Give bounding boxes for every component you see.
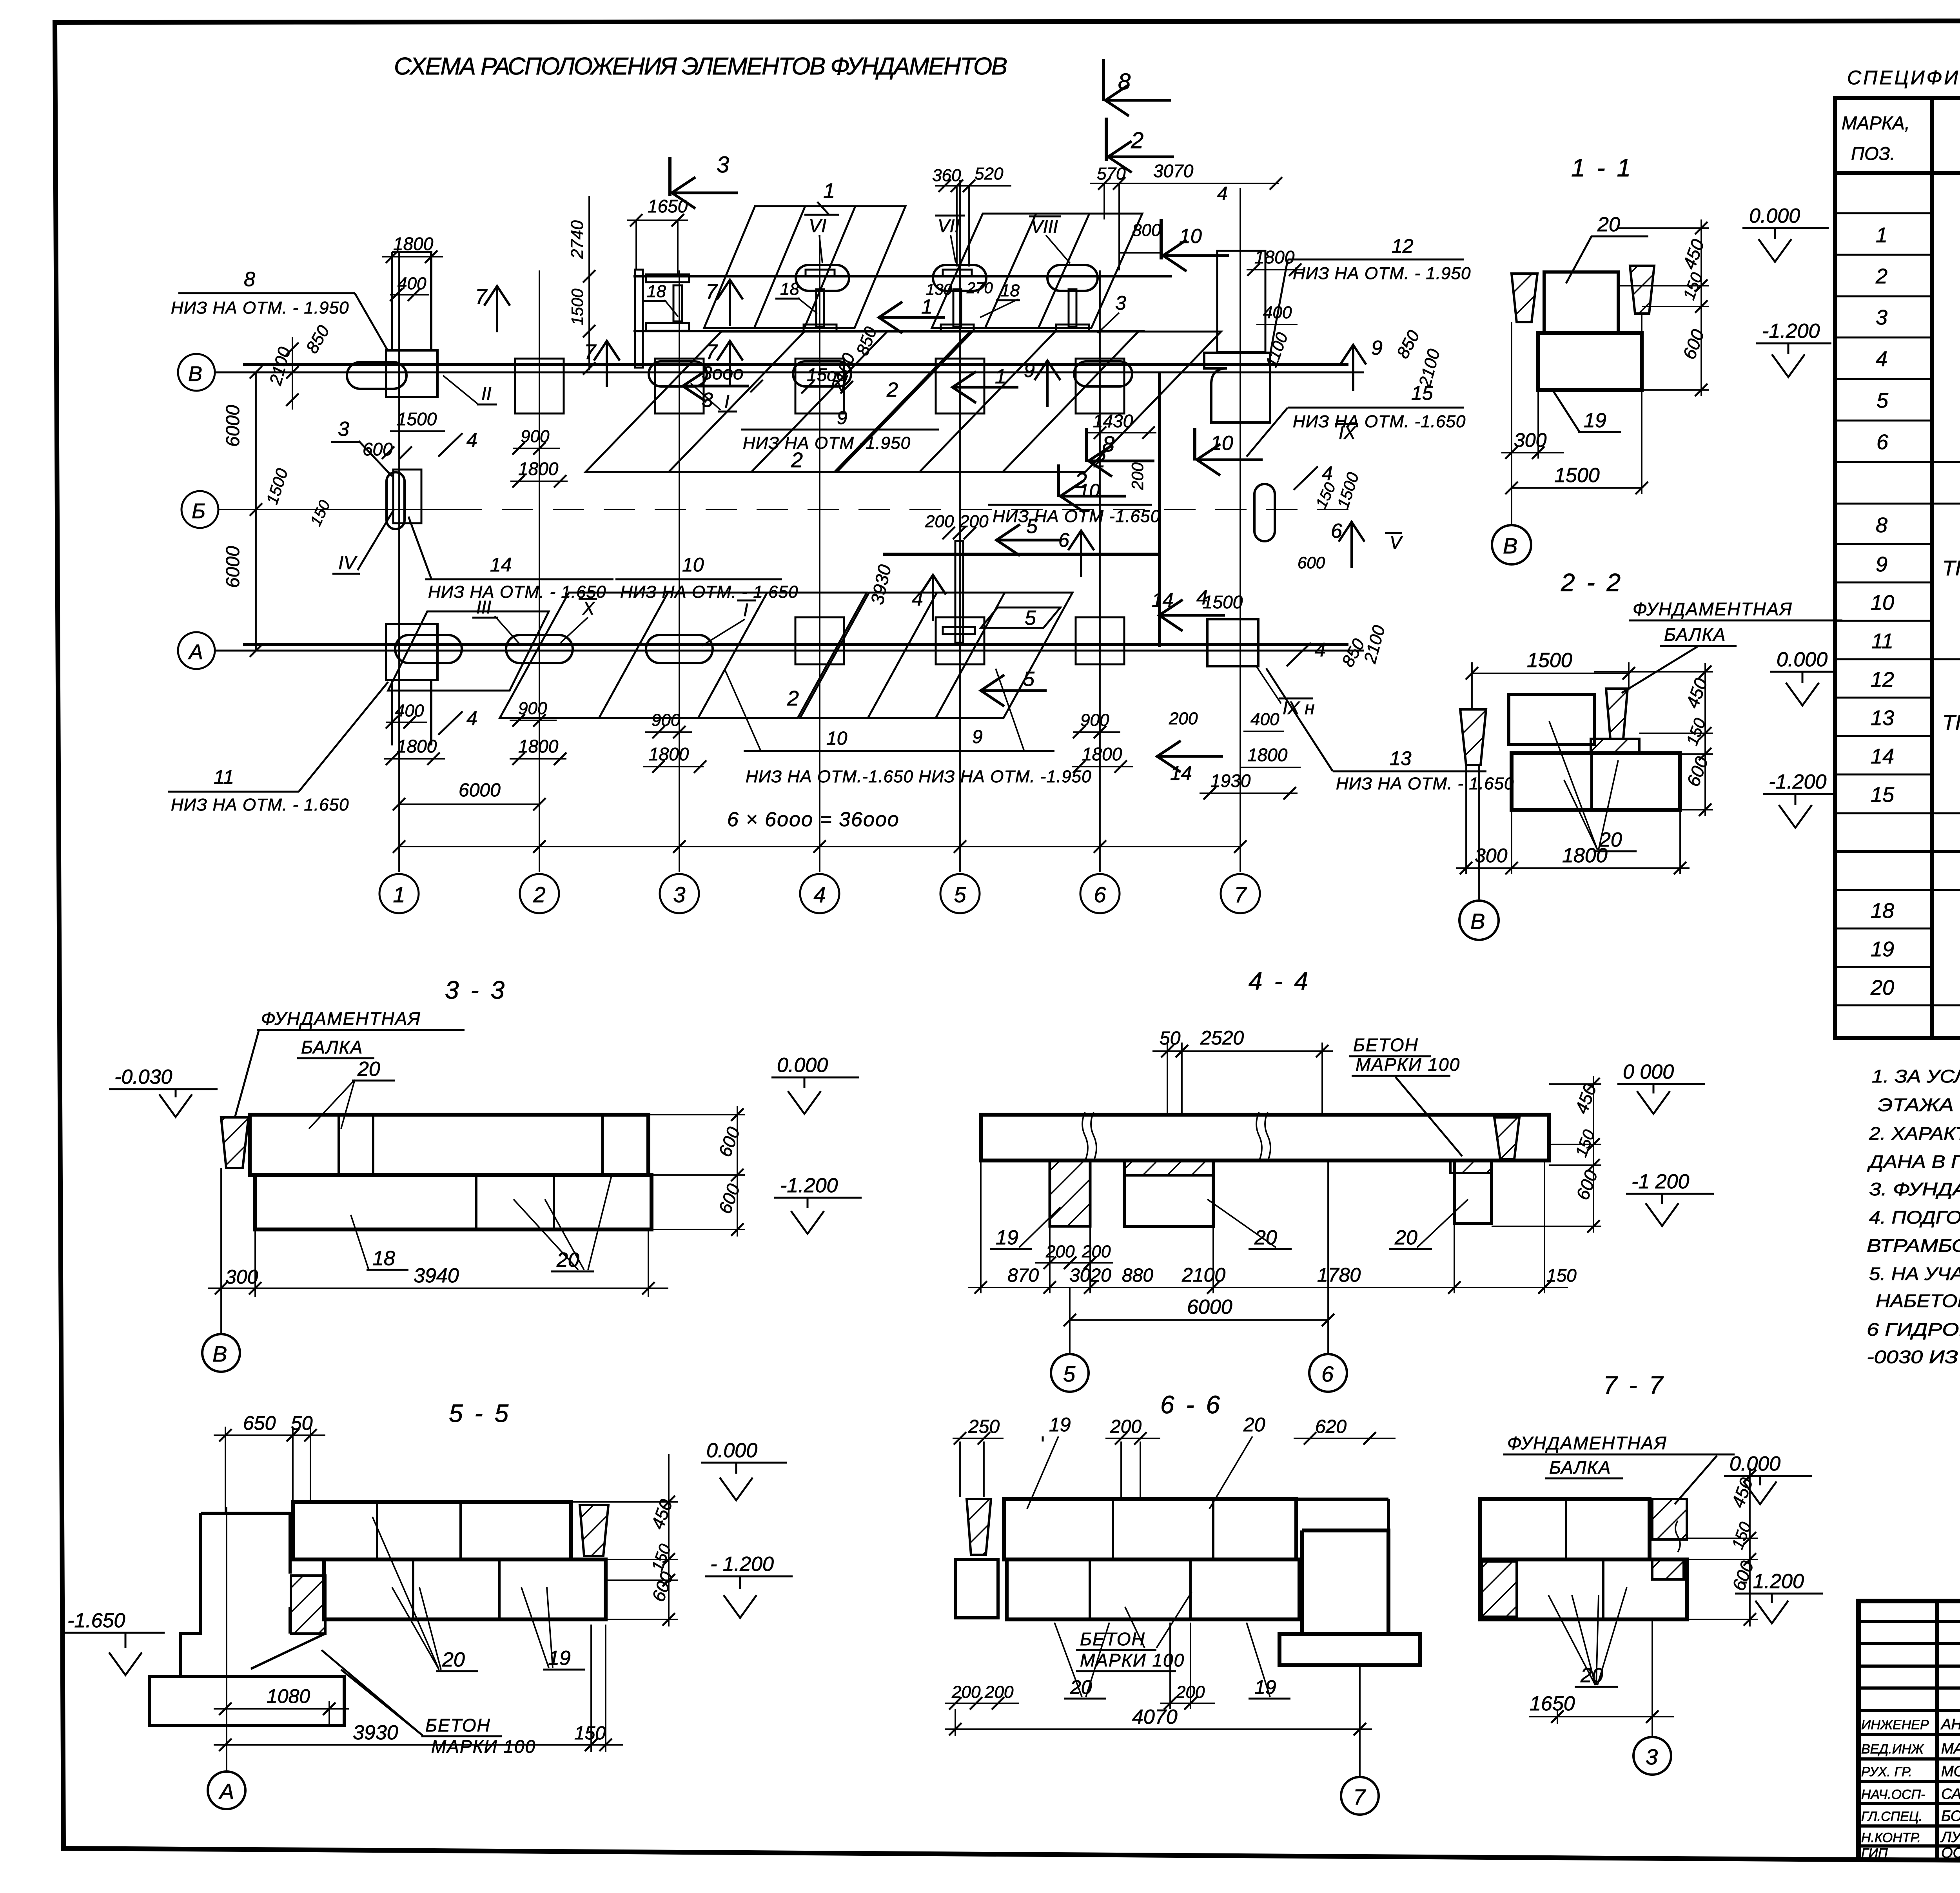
svg-text:БОЯРЧЕНКО: БОЯРЧЕНКО [1941, 1808, 1960, 1824]
svg-text:НИЗ НА ОТМ. -1.650: НИЗ НА ОТМ. -1.650 [1293, 412, 1466, 431]
svg-text:А: А [218, 1779, 234, 1804]
svg-text:400: 400 [395, 701, 424, 720]
svg-text:VI: VI [809, 216, 826, 236]
svg-text:1: 1 [1876, 223, 1887, 247]
svg-text:2: 2 [1875, 265, 1887, 288]
svg-text:1: 1 [393, 882, 405, 907]
svg-text:3: 3 [717, 152, 729, 178]
svg-text:10: 10 [1871, 591, 1894, 615]
svg-text:200: 200 [951, 1683, 981, 1702]
svg-text:IX: IX [1339, 422, 1357, 443]
svg-text:6000: 6000 [459, 780, 501, 801]
svg-text:7: 7 [706, 340, 718, 364]
svg-text:2: 2 [787, 687, 799, 710]
svg-text:1650: 1650 [1530, 1692, 1575, 1715]
svg-text:1800: 1800 [1254, 247, 1295, 267]
svg-text:IX н: IX н [1283, 698, 1315, 718]
svg-text:IV: IV [338, 553, 358, 573]
svg-text:ФУНДАМЕНТНАЯ: ФУНДАМЕНТНАЯ [261, 1008, 421, 1029]
svg-text:В: В [1503, 533, 1517, 558]
svg-text:18: 18 [372, 1247, 395, 1270]
svg-text:7: 7 [1234, 882, 1247, 907]
svg-text:ОСТАШЕВСКИЙ: ОСТАШЕВСКИЙ [1941, 1844, 1960, 1861]
svg-text:1500: 1500 [568, 288, 586, 325]
svg-text:ТП 904 - 1 - КЖ ЛИСТ 8: ТП 904 - 1 - КЖ ЛИСТ 8 [1942, 557, 1960, 580]
svg-text:3. ФУНДАМЕНТЫ ВЫПОЛНЯЮТСЯ В: 3. ФУНДАМЕНТЫ ВЫПОЛНЯЮТСЯ В ТИПОВОЙ ОПАЛ… [1869, 1179, 1960, 1199]
svg-text:4: 4 [1315, 639, 1326, 661]
svg-text:В: В [188, 362, 202, 386]
svg-text:15: 15 [1871, 783, 1895, 807]
svg-text:НИЗ НА ОТМ -1.650: НИЗ НА ОТМ -1.650 [993, 507, 1160, 526]
svg-text:150: 150 [1546, 1265, 1577, 1286]
svg-text:4: 4 [813, 882, 826, 907]
svg-text:14: 14 [1871, 745, 1894, 768]
svg-text:ДАНА В ПОЯСНИТЕЛЬНОЙ ЗАПИСКЕ: ДАНА В ПОЯСНИТЕЛЬНОЙ ЗАПИСКЕ К ТИПОВОМУ … [1867, 1151, 1960, 1172]
svg-text:10: 10 [1179, 225, 1202, 248]
svg-text:ГИП: ГИП [1861, 1846, 1888, 1861]
svg-text:900: 900 [652, 711, 681, 730]
svg-text:200: 200 [1169, 709, 1198, 728]
svg-text:12: 12 [1392, 235, 1414, 257]
svg-text:3: 3 [338, 418, 349, 441]
svg-text:-0.030: -0.030 [114, 1066, 172, 1088]
svg-text:1080: 1080 [267, 1685, 310, 1707]
svg-text:1800: 1800 [393, 234, 434, 254]
svg-text:1430: 1430 [1093, 411, 1133, 431]
svg-text:4070: 4070 [1132, 1706, 1178, 1728]
svg-text:ПОЗ.: ПОЗ. [1851, 143, 1895, 164]
svg-text:1500: 1500 [1203, 592, 1243, 612]
svg-text:5: 5 [954, 882, 966, 907]
svg-text:6: 6 [1321, 1362, 1334, 1386]
svg-text:870: 870 [1007, 1265, 1039, 1286]
svg-text:3930: 3930 [353, 1721, 398, 1744]
svg-text:ЛУЦЕНКО: ЛУЦЕНКО [1940, 1829, 1960, 1846]
svg-text:4: 4 [466, 707, 477, 729]
svg-text:20: 20 [1243, 1414, 1265, 1436]
svg-text:6000: 6000 [223, 405, 243, 447]
svg-text:13: 13 [1390, 747, 1412, 769]
svg-text:5. НА УЧАСТКАХ МЕЖДУ ТОРЦАМИ: 5. НА УЧАСТКАХ МЕЖДУ ТОРЦАМИ ФУНДАМЕНТНЫ… [1869, 1264, 1960, 1284]
svg-text:7: 7 [584, 340, 597, 364]
svg-text:АНДРЕЕВА: АНДРЕЕВА [1940, 1716, 1960, 1733]
svg-text:3940: 3940 [414, 1264, 459, 1287]
svg-text:VII: VII [938, 216, 960, 236]
svg-text:4: 4 [466, 429, 477, 451]
svg-text:0.000: 0.000 [1749, 205, 1800, 227]
svg-text:III: III [476, 597, 492, 617]
svg-text:1: 1 [921, 296, 933, 318]
svg-text:2: 2 [533, 882, 545, 907]
svg-text:400: 400 [1250, 710, 1279, 729]
svg-text:ВТРАМБОВАНИЯ В ГРУНТ ЩЕБНЯ: ВТРАМБОВАНИЯ В ГРУНТ ЩЕБНЯ ИЛИ ГРАВИЯ КР… [1867, 1235, 1960, 1256]
svg-text:4: 4 [1876, 347, 1887, 371]
svg-text:270: 270 [966, 279, 993, 297]
svg-text:19: 19 [1049, 1414, 1071, 1436]
svg-text:ЭТАЖА МАШИННОГО ЗАЛА: ЭТАЖА МАШИННОГО ЗАЛА [1878, 1095, 1960, 1115]
svg-text:20: 20 [1870, 976, 1894, 999]
svg-text:-1.200: -1.200 [780, 1174, 838, 1197]
svg-text:6 - 6: 6 - 6 [1160, 1391, 1222, 1419]
svg-text:I: I [724, 391, 730, 412]
svg-text:1800: 1800 [649, 744, 689, 764]
svg-text:1800: 1800 [1247, 745, 1288, 765]
svg-text:600: 600 [363, 439, 393, 459]
svg-text:6: 6 [1094, 882, 1106, 907]
svg-text:МАРКИ 100: МАРКИ 100 [1356, 1054, 1460, 1075]
svg-text:6 × 6ооо = 36ооо: 6 × 6ооо = 36ооо [727, 808, 900, 831]
svg-text:1800: 1800 [1562, 844, 1608, 867]
svg-text:9: 9 [1371, 337, 1383, 359]
svg-text:2: 2 [886, 379, 898, 401]
svg-text:18: 18 [647, 282, 666, 301]
svg-text:13: 13 [1871, 706, 1894, 730]
svg-text:1800: 1800 [397, 736, 437, 756]
svg-text:НИЗ НА ОТМ. - 1.950: НИЗ НА ОТМ. - 1.950 [1293, 264, 1471, 283]
svg-text:6000: 6000 [1187, 1296, 1232, 1318]
svg-text:5 - 5: 5 - 5 [449, 1399, 511, 1427]
svg-text:4: 4 [1322, 462, 1333, 484]
svg-text:5: 5 [1026, 515, 1038, 538]
svg-text:1500: 1500 [1554, 464, 1600, 487]
svg-text:2. ХАРАКТЕРИСТИКА ГРУНТОВ, СЛ: 2. ХАРАКТЕРИСТИКА ГРУНТОВ, СЛУЖАЩИХ ОСНО… [1869, 1123, 1960, 1144]
svg-text:6 ГИДРОИЗОЛЯЦИЯ ПОД СТЕНЫ В: 6 ГИДРОИЗОЛЯЦИЯ ПОД СТЕНЫ ВЫПОЛНЯЕТСЯ НА… [1867, 1319, 1960, 1340]
svg-text:ФУНДАМЕНТНАЯ: ФУНДАМЕНТНАЯ [1507, 1433, 1667, 1453]
svg-text:1. ЗА УСЛОВНУЮ ОТМЕТКУ 0 000: 1. ЗА УСЛОВНУЮ ОТМЕТКУ 0 000 ПРИНЯТ УРОВ… [1872, 1066, 1960, 1086]
svg-text:МАРКИ 100: МАРКИ 100 [431, 1736, 536, 1757]
svg-text:РУХ. ГР.: РУХ. ГР. [1861, 1764, 1912, 1779]
svg-text:7: 7 [1353, 1784, 1366, 1809]
svg-text:6: 6 [1877, 430, 1889, 454]
svg-text:- 1.200: - 1.200 [1740, 1570, 1804, 1593]
svg-text:4. ПОДГОТОВКУ ОСНОВАНИЯ ПОД: 4. ПОДГОТОВКУ ОСНОВАНИЯ ПОД ФУНДАМЕНТЫ В… [1869, 1207, 1960, 1228]
svg-text:3ооо: 3ооо [702, 363, 744, 384]
svg-text:1800: 1800 [1082, 744, 1122, 764]
svg-text:БЕТОН: БЕТОН [1080, 1629, 1145, 1649]
svg-text:5: 5 [1063, 1362, 1076, 1386]
svg-text:ФУНДАМЕНТНАЯ: ФУНДАМЕНТНАЯ [1633, 599, 1793, 619]
svg-text:-1.650: -1.650 [67, 1609, 125, 1632]
svg-text:150: 150 [574, 1723, 606, 1744]
svg-text:400: 400 [1263, 303, 1292, 322]
svg-text:НИЗ НА ОТМ. - 1.650: НИЗ НА ОТМ. - 1.650 [1336, 774, 1514, 793]
svg-text:2: 2 [1131, 128, 1143, 153]
svg-text:ГЛ.СПЕЦ.: ГЛ.СПЕЦ. [1861, 1809, 1922, 1824]
svg-text:800: 800 [1132, 221, 1161, 240]
svg-text:18: 18 [780, 279, 799, 299]
svg-text:Б: Б [192, 499, 205, 523]
svg-text:7: 7 [706, 280, 718, 303]
svg-text:МАКАРОВА: МАКАРОВА [1941, 1741, 1960, 1757]
svg-text:200: 200 [984, 1683, 1014, 1702]
svg-text:14: 14 [1170, 762, 1192, 784]
svg-text:7 - 7: 7 - 7 [1603, 1371, 1665, 1399]
svg-text:3: 3 [1876, 306, 1887, 329]
svg-text:9: 9 [1876, 553, 1887, 576]
svg-text:20: 20 [357, 1058, 380, 1081]
svg-text:3: 3 [673, 882, 685, 907]
svg-text:БЕТОН: БЕТОН [425, 1715, 491, 1735]
svg-text:- 1.200: - 1.200 [710, 1553, 774, 1576]
svg-text:9: 9 [972, 727, 983, 747]
svg-text:1 - 1: 1 - 1 [1571, 154, 1633, 182]
svg-text:650: 650 [243, 1412, 276, 1434]
svg-text:12: 12 [1871, 668, 1894, 691]
svg-text:8: 8 [1102, 432, 1114, 456]
svg-text:НАБЕТОНКИ ИЗ БЕТОНА МАРКИ 1: НАБЕТОНКИ ИЗ БЕТОНА МАРКИ 100, РАСХОД 1.… [1876, 1291, 1960, 1311]
svg-text:620: 620 [1315, 1416, 1347, 1437]
svg-text:1: 1 [995, 365, 1006, 388]
svg-text:БЕТОН: БЕТОН [1353, 1035, 1419, 1055]
svg-text:VIII: VIII [1031, 216, 1058, 237]
svg-text:НИЗ НА ОТМ. - 1.650: НИЗ НА ОТМ. - 1.650 [620, 582, 799, 602]
svg-text:8: 8 [1118, 69, 1131, 94]
svg-text:18: 18 [1000, 281, 1020, 300]
svg-text:БАЛКА: БАЛКА [1549, 1457, 1611, 1478]
svg-text:МАРКА,: МАРКА, [1842, 112, 1910, 133]
svg-text:МОРГУНОВ: МОРГУНОВ [1941, 1763, 1960, 1780]
svg-text:3: 3 [1646, 1744, 1658, 1769]
svg-text:ИНЖЕНЕР: ИНЖЕНЕР [1861, 1717, 1929, 1732]
svg-text:-1 200: -1 200 [1632, 1170, 1690, 1193]
svg-text:I: I [743, 600, 748, 620]
svg-text:СААКЬЯНЦ: СААКЬЯНЦ [1941, 1786, 1960, 1802]
svg-text:4: 4 [1217, 183, 1228, 204]
svg-text:1500: 1500 [1527, 649, 1572, 672]
svg-text:V: V [1390, 532, 1403, 553]
svg-text:БАЛКА: БАЛКА [301, 1037, 363, 1057]
svg-text:2520: 2520 [1200, 1027, 1244, 1049]
svg-text:18: 18 [1871, 899, 1894, 923]
svg-text:360: 360 [932, 166, 961, 185]
svg-text:3020: 3020 [1069, 1265, 1111, 1286]
svg-text:А: А [188, 640, 203, 664]
svg-text:НИЗ НА ОТМ. - 1.650: НИЗ НА ОТМ. - 1.650 [171, 795, 349, 814]
svg-text:6: 6 [1058, 529, 1069, 551]
svg-text:50: 50 [291, 1412, 313, 1434]
svg-text:2: 2 [1074, 468, 1087, 493]
svg-text:4 - 4: 4 - 4 [1249, 967, 1310, 995]
svg-text:14: 14 [1152, 589, 1174, 611]
svg-text:19: 19 [1871, 937, 1894, 961]
svg-text:200: 200 [1082, 1242, 1111, 1261]
svg-text:520: 520 [975, 164, 1004, 183]
svg-text:880: 880 [1122, 1265, 1153, 1286]
svg-text:БАЛКА: БАЛКА [1664, 624, 1726, 645]
svg-text:НИЗ НА ОТМ -1.950: НИЗ НА ОТМ -1.950 [743, 433, 911, 453]
svg-text:8: 8 [1876, 513, 1887, 537]
svg-text:НИЗ НА ОТМ.-1.650 НИЗ НА ОТМ.: НИЗ НА ОТМ.-1.650 НИЗ НА ОТМ. -1.950 [746, 767, 1092, 786]
svg-text:-0030 ИЗ СЛОЯ ЦЕМЕНТНОГО РА: -0030 ИЗ СЛОЯ ЦЕМЕНТНОГО РАСТВОРА СОСТАВ… [1867, 1346, 1960, 1367]
svg-text:0 000: 0 000 [1623, 1061, 1674, 1083]
svg-text:1930: 1930 [1210, 771, 1251, 791]
svg-text:6: 6 [1331, 520, 1342, 542]
svg-text:10: 10 [682, 554, 704, 576]
svg-text:Н.КОНТР.: Н.КОНТР. [1861, 1830, 1921, 1845]
svg-text:11: 11 [214, 766, 234, 788]
svg-text:200: 200 [1128, 462, 1147, 490]
svg-text:9: 9 [1024, 359, 1035, 381]
svg-text:В: В [212, 1342, 227, 1366]
svg-text:2 - 2: 2 - 2 [1561, 568, 1623, 597]
svg-text:0.000: 0.000 [706, 1439, 757, 1462]
svg-text:5: 5 [1023, 668, 1035, 691]
svg-text:300: 300 [225, 1266, 258, 1288]
svg-text:10: 10 [826, 728, 848, 749]
svg-text:3070: 3070 [1153, 161, 1194, 181]
svg-text:3: 3 [1115, 292, 1126, 314]
svg-text:19: 19 [996, 1226, 1018, 1249]
svg-text:1500: 1500 [397, 409, 437, 429]
svg-text:200: 200 [925, 512, 954, 531]
svg-text:1: 1 [823, 179, 835, 203]
svg-text:ТП 904 - 1 - -КЖ ЛИСТ 9: ТП 904 - 1 - -КЖ ЛИСТ 9 [1942, 711, 1960, 734]
svg-text:4: 4 [912, 587, 923, 610]
svg-text:5: 5 [1877, 389, 1889, 412]
svg-text:В: В [1470, 909, 1485, 934]
svg-text:8: 8 [244, 268, 255, 291]
svg-text:1780: 1780 [1317, 1264, 1361, 1286]
svg-text:20: 20 [442, 1648, 465, 1671]
svg-text:НАЧ.ОСП-: НАЧ.ОСП- [1861, 1787, 1926, 1802]
svg-text:ВЕД.ИНЖ: ВЕД.ИНЖ [1861, 1742, 1924, 1757]
svg-text:II: II [481, 383, 492, 404]
svg-text:2740: 2740 [568, 220, 587, 259]
svg-text:9: 9 [837, 408, 848, 428]
svg-text:3 - 3: 3 - 3 [445, 976, 507, 1004]
svg-text:СХЕМА РАСПОЛОЖЕНИЯ ЭЛЕМЕНТ: СХЕМА РАСПОЛОЖЕНИЯ ЭЛЕМЕНТОВ ФУНДАМЕНТОВ [394, 53, 1007, 80]
svg-text:20: 20 [1597, 213, 1620, 236]
svg-text:6000: 6000 [223, 546, 243, 588]
svg-text:10: 10 [1210, 432, 1233, 455]
svg-text:50: 50 [1160, 1028, 1181, 1049]
svg-text:19: 19 [1584, 409, 1606, 432]
svg-text:14: 14 [490, 554, 512, 576]
svg-text:0.000: 0.000 [1777, 648, 1828, 671]
svg-text:5: 5 [1025, 607, 1036, 629]
svg-text:-1.200: -1.200 [1762, 320, 1820, 343]
svg-text:600: 600 [1298, 553, 1325, 572]
svg-text:20: 20 [1394, 1226, 1417, 1249]
svg-text:11: 11 [1871, 629, 1893, 653]
svg-text:-1.200: -1.200 [1769, 771, 1827, 793]
svg-text:X: X [582, 598, 595, 618]
svg-text:3: 3 [702, 389, 713, 412]
svg-text:7: 7 [475, 285, 488, 308]
svg-text:НИЗ НА ОТМ. - 1.950: НИЗ НА ОТМ. - 1.950 [171, 298, 349, 317]
svg-text:0.000: 0.000 [777, 1054, 828, 1077]
svg-text:250: 250 [968, 1416, 1000, 1437]
